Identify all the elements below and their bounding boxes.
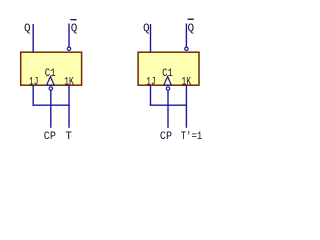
wire U2 1J input down to tie bus (150, 85, 152, 106)
svg-text:CP: CP (160, 131, 172, 143)
U2 clock inversion bubble (166, 87, 169, 90)
wire U1 1J input down to tie bus (32, 85, 34, 106)
U1 clock dynamic-edge triangle (47, 77, 55, 86)
svg-text:CP: CP (44, 131, 56, 143)
wire U1 Q output (32, 24, 34, 52)
wire U2 Q output (150, 24, 152, 52)
wire U2 clock input down to CP terminal (167, 90, 169, 127)
wire U1 Qbar output (68, 24, 70, 47)
wire U2 1K input down through bus to T' terminal (185, 85, 187, 128)
Qbar overbar (U2) (188, 18, 194, 20)
flip-flop U1 body (21, 52, 82, 85)
Qbar overbar (U1) (70, 19, 76, 21)
svg-text:Q: Q (71, 23, 78, 35)
svg-text:C1: C1 (162, 68, 173, 80)
U2 Qbar output inversion bubble (185, 47, 188, 50)
wire U1 J-K tie bus (33, 104, 70, 106)
svg-text:T: T (65, 131, 72, 143)
U1 Qbar output inversion bubble (67, 47, 70, 50)
wire U1 1K input down through bus to T terminal (68, 85, 70, 128)
svg-text:C1: C1 (45, 68, 56, 80)
wire U1 clock input down to CP terminal (50, 90, 52, 127)
wire U2 J-K tie bus (150, 104, 187, 106)
wire U2 Qbar output (185, 24, 187, 47)
svg-text:T'=1: T'=1 (181, 131, 203, 143)
svg-text:Q: Q (143, 23, 150, 35)
svg-text:Q: Q (188, 23, 195, 35)
U2 clock dynamic-edge triangle (164, 77, 172, 86)
U1 clock inversion bubble (49, 87, 52, 90)
svg-text:Q: Q (24, 23, 31, 35)
flip-flop U2 body (138, 52, 199, 85)
